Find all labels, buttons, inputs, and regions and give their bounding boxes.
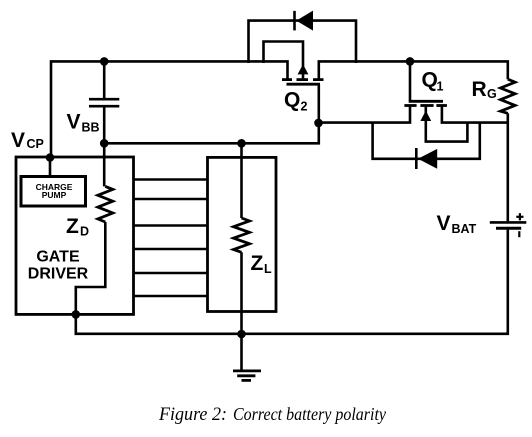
wire interconnect lines 5 bbox=[134, 272, 208, 275]
charge pump box bbox=[21, 177, 86, 207]
node Q2 gate node dot bbox=[314, 119, 323, 128]
battery minus tick bbox=[518, 231, 520, 237]
wire interconnect lines 3 bbox=[134, 224, 208, 227]
svg-text:Z: Z bbox=[251, 252, 264, 275]
capacitor VBB bottom plate bbox=[89, 105, 119, 108]
svg-text:PUMP: PUMP bbox=[42, 190, 67, 200]
node VCP dot bbox=[46, 153, 55, 162]
transistor Q1 contact bars bbox=[404, 104, 447, 107]
svg-text:BAT: BAT bbox=[452, 222, 477, 236]
load box ZL bbox=[208, 157, 277, 311]
battery VBAT bottom plate bbox=[496, 227, 521, 230]
diode D1 triangle bbox=[418, 149, 437, 169]
wire ZL top lead bbox=[240, 143, 243, 218]
svg-text:V: V bbox=[11, 129, 25, 152]
transistor Q2 gate bar bbox=[287, 83, 321, 86]
wire battery bottom and bottom rail bbox=[76, 230, 508, 334]
wire Q2 gate node east to Q1 drain bbox=[319, 107, 411, 123]
svg-text:V: V bbox=[67, 111, 81, 134]
wire Q1 body loop bbox=[426, 107, 468, 142]
svg-text:DRIVER: DRIVER bbox=[28, 266, 89, 283]
battery plus sign bbox=[516, 213, 523, 220]
wire outer body-diode loop of Q2 bbox=[249, 21, 357, 63]
node ZL top dot bbox=[237, 139, 246, 148]
node gate driver bottom dot bbox=[72, 310, 81, 319]
node Q1 gate rail dot bbox=[406, 57, 415, 66]
wire VCP to charge pump bbox=[49, 158, 52, 177]
ground bar 3 bbox=[242, 379, 252, 382]
transistor Q2 body arrow bbox=[298, 64, 309, 74]
svg-text:Q: Q bbox=[284, 89, 300, 112]
node ground dot bbox=[237, 330, 246, 339]
diode D1 cathode bar bbox=[415, 148, 418, 169]
gate driver box bbox=[16, 157, 134, 314]
svg-text:L: L bbox=[264, 262, 272, 276]
node VBB top dot bbox=[100, 57, 109, 66]
resistor ZD zigzag bbox=[98, 186, 113, 222]
svg-text:R: R bbox=[472, 78, 487, 101]
svg-text:Z: Z bbox=[66, 215, 79, 238]
transistor Q2 contact bars bbox=[282, 78, 324, 81]
svg-text:Figure 2:: Figure 2: bbox=[158, 404, 227, 425]
wire Q1 gate up to rail bbox=[409, 61, 412, 100]
wire inner body loop of Q2 bbox=[264, 42, 304, 79]
transistor Q1 gate bar bbox=[409, 100, 443, 103]
wire Q2 gate down and west to VBB node bbox=[104, 84, 319, 143]
svg-text:Correct battery polarity: Correct battery polarity bbox=[233, 404, 386, 424]
ground bar 1 bbox=[233, 369, 261, 372]
wire ZL bottom lead bbox=[240, 252, 243, 334]
svg-text:G: G bbox=[487, 87, 497, 101]
diode D2 cathode bar bbox=[293, 11, 296, 31]
svg-text:Q: Q bbox=[422, 69, 438, 92]
ground bar 2 bbox=[237, 374, 255, 377]
svg-text:CP: CP bbox=[27, 137, 44, 151]
wire top rail left bbox=[51, 61, 288, 158]
svg-text:GATE: GATE bbox=[36, 249, 80, 266]
battery VBAT top plate bbox=[490, 221, 527, 224]
svg-text:1: 1 bbox=[437, 80, 444, 94]
svg-text:BB: BB bbox=[82, 121, 100, 135]
wire ZD bottom routing bbox=[76, 222, 106, 313]
ground stem bbox=[240, 334, 243, 370]
svg-text:D: D bbox=[80, 225, 89, 239]
resistor ZL zigzag bbox=[234, 218, 250, 252]
wire Q1 source east to RG bottom bbox=[442, 107, 508, 123]
wire interconnect lines 4 bbox=[134, 248, 208, 251]
wire VBB capacitor top lead bbox=[103, 61, 106, 98]
wire interconnect lines 1 bbox=[134, 178, 208, 181]
wire RG bottom to battery top bbox=[506, 113, 509, 221]
svg-text:V: V bbox=[437, 212, 451, 235]
wire Q1 diode loop bbox=[373, 123, 480, 159]
svg-text:2: 2 bbox=[301, 100, 308, 114]
transistor Q1 body arrow bbox=[420, 111, 431, 122]
wire interconnect lines 2 bbox=[134, 198, 208, 201]
diode D2 triangle bbox=[296, 11, 313, 31]
capacitor VBB top plate bbox=[89, 98, 119, 101]
wire VBB capacitor bottom lead down to ZD bbox=[103, 108, 106, 187]
resistor RG zigzag bbox=[501, 79, 516, 113]
wire top rail right with RG top lead bbox=[319, 61, 508, 79]
node VBB bottom dot bbox=[100, 139, 109, 148]
wire interconnect lines 6 bbox=[134, 295, 208, 298]
